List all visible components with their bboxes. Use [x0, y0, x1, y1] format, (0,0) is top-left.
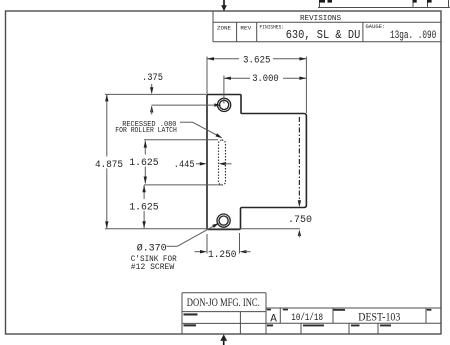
svg-text:4.875: 4.875 — [95, 159, 123, 171]
svg-text:DEST-103: DEST-103 — [358, 312, 400, 324]
svg-text:Ø.370: Ø.370 — [137, 243, 167, 255]
svg-text:REVISIONS: REVISIONS — [300, 15, 341, 23]
svg-text:1.625: 1.625 — [129, 157, 158, 169]
svg-text:.375: .375 — [142, 72, 163, 84]
svg-text:13ga. .090: 13ga. .090 — [390, 30, 436, 42]
svg-text:DON-JO MFG. INC.: DON-JO MFG. INC. — [187, 297, 260, 309]
svg-text:A: A — [270, 313, 277, 325]
svg-text:FINISHES:: FINISHES: — [260, 23, 285, 30]
svg-text:10/1/18: 10/1/18 — [291, 312, 323, 324]
svg-text:FOR ROLLER LATCH: FOR ROLLER LATCH — [115, 127, 177, 135]
svg-text:ZONE: ZONE — [217, 25, 232, 32]
svg-text:1.250: 1.250 — [208, 249, 237, 261]
svg-text:3.000: 3.000 — [252, 73, 279, 85]
svg-text:630, SL & DU: 630, SL & DU — [286, 28, 361, 42]
svg-text:1.625: 1.625 — [129, 201, 158, 213]
svg-text:.445: .445 — [174, 159, 195, 171]
svg-text:REV: REV — [240, 25, 251, 32]
svg-text:#12 SCREW: #12 SCREW — [131, 263, 174, 272]
svg-text:3.625: 3.625 — [243, 55, 271, 67]
svg-text:.750: .750 — [288, 214, 312, 226]
svg-text:GAUGE:: GAUGE: — [366, 23, 386, 30]
